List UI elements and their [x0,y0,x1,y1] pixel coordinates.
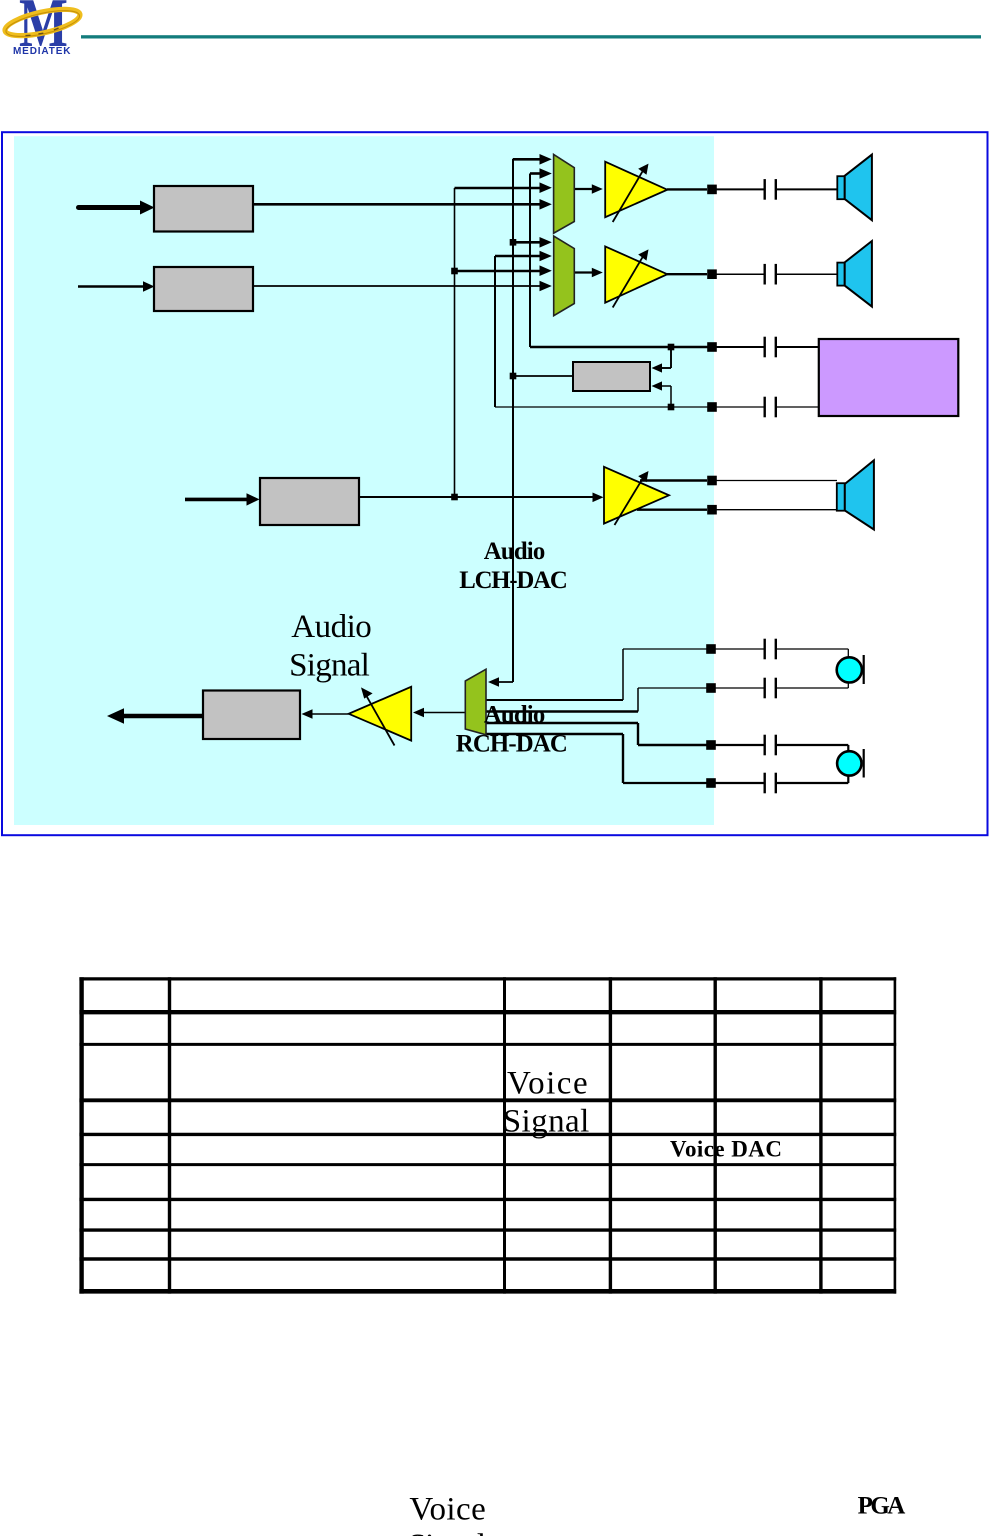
svg-text:Signal: Signal [503,1104,590,1140]
svg-text:LCH-DAC: LCH-DAC [459,567,568,594]
svg-text:Signal: Signal [289,648,370,684]
svg-text:Audio: Audio [484,538,546,565]
svg-text:RCH-DAC: RCH-DAC [456,730,568,757]
svg-text:Voice: Voice [409,1491,485,1527]
svg-text:Signal: Signal [408,1528,486,1536]
svg-text:Audio: Audio [484,702,546,729]
svg-text:Voice DAC: Voice DAC [670,1137,782,1162]
svg-text:MEDIATEK: MEDIATEK [13,46,71,57]
svg-text:PGA: PGA [858,1493,906,1520]
svg-text:Audio: Audio [291,609,372,645]
svg-text:Voice: Voice [507,1066,588,1102]
